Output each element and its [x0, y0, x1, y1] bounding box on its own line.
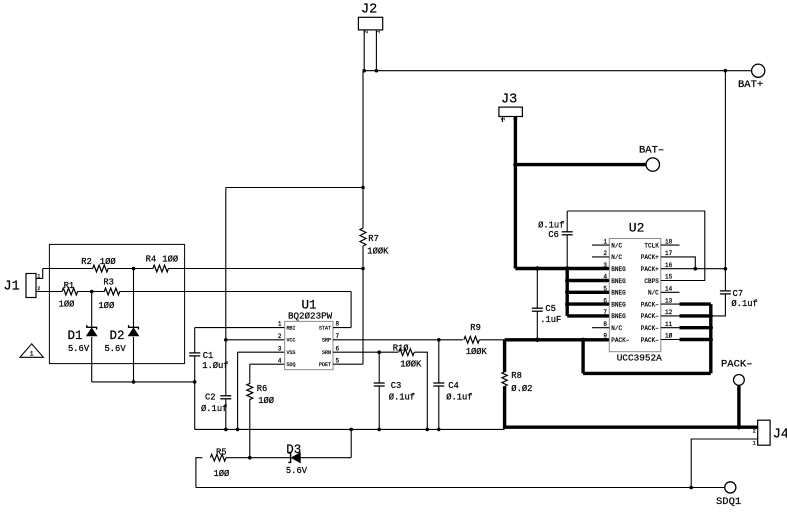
- svg-text:1ØØ: 1ØØ: [214, 469, 231, 479]
- resistor R9: [464, 336, 480, 343]
- pin 11 of U2 stub: [661, 327, 680, 329]
- svg-text:Ø.Ø2: Ø.Ø2: [511, 384, 532, 394]
- wire BAT+ right drop: [724, 71, 726, 291]
- resistor R10: [399, 349, 415, 356]
- resistor R1: [62, 288, 78, 295]
- pin 15 of U2 stub: [661, 280, 680, 282]
- wire U2 pin16 PACK+ net: [680, 268, 726, 270]
- wire PACK- bottom rail (thick): [505, 426, 758, 429]
- svg-text:PACK–: PACK–: [641, 313, 659, 320]
- junction C4 at rail: [437, 428, 441, 432]
- wire VSS pin3 net: [238, 351, 285, 353]
- svg-text:PACK–: PACK–: [641, 325, 659, 332]
- wire J1 pin1 jog: [36, 269, 43, 279]
- wire C6 top segment: [566, 211, 568, 232]
- wire PDET pin5 stub: [333, 363, 363, 365]
- wire C2 column vertical: [225, 188, 227, 396]
- junction C3 tap on SRN: [377, 350, 381, 354]
- svg-text:1: 1: [603, 238, 607, 245]
- pin 3 of U2 stub: [592, 268, 609, 270]
- junction C5 top tap: [535, 266, 539, 270]
- junction D3 riser at rail: [349, 428, 353, 432]
- junction PACK- bus pin11: [709, 326, 713, 330]
- svg-text:PACK–: PACK–: [611, 337, 629, 344]
- wire C5 column upper: [536, 269, 538, 309]
- svg-text:5: 5: [336, 357, 340, 364]
- resistor R8: [502, 372, 507, 386]
- svg-text:STAT: STAT: [319, 326, 331, 332]
- svg-text:VSS: VSS: [287, 350, 296, 356]
- svg-text:BAT+: BAT+: [738, 79, 763, 91]
- wire BNEG pin5 (thick): [567, 291, 609, 294]
- junction C5 bottom tap: [535, 338, 539, 342]
- svg-text:BNEG: BNEG: [611, 290, 626, 297]
- junction pin17 at pin16 net: [694, 267, 698, 271]
- pin 7 of U2 stub: [592, 315, 609, 317]
- wire C3 drop: [378, 352, 380, 383]
- svg-text:CBPS: CBPS: [644, 278, 659, 285]
- wire D3 riser to rail: [350, 429, 352, 457]
- svg-text:1ØØ: 1ØØ: [59, 299, 76, 309]
- wire D2 cathode drop: [133, 337, 135, 382]
- junction BNEG pin5: [565, 290, 569, 294]
- wire PACK- terminal drop (thick): [737, 385, 740, 427]
- svg-text:TCLK: TCLK: [644, 242, 659, 249]
- svg-text:U2: U2: [629, 221, 645, 236]
- wire BNEG thick row pin3 (thick): [515, 267, 609, 270]
- junction J3 drop and BAT- wire: [513, 162, 517, 166]
- svg-text:.1uF: .1uF: [540, 315, 561, 325]
- svg-text:R8: R8: [511, 371, 522, 381]
- svg-text:RBI: RBI: [287, 326, 296, 332]
- svg-text:8: 8: [336, 321, 340, 328]
- pin 10 of U2 stub: [661, 339, 680, 341]
- svg-text:R1Ø: R1Ø: [393, 343, 410, 353]
- enclosure box around input network: [49, 244, 184, 363]
- capacitor C6: [562, 231, 573, 233]
- svg-text:SDQ1: SDQ1: [716, 496, 741, 508]
- svg-text:PDET: PDET: [319, 362, 331, 368]
- capacitor C5: [532, 307, 543, 309]
- junction VSS at rail: [236, 428, 240, 432]
- svg-text:2: 2: [603, 250, 607, 257]
- junction at J2 pin2 and rail: [362, 69, 366, 73]
- svg-text:1: 1: [30, 350, 34, 357]
- wire R6 bottom lead crossing rail: [249, 399, 251, 458]
- wire PACK- pin10 (thick): [680, 338, 711, 341]
- wire SRP thick bus to U2 pin9 (thick): [505, 338, 610, 341]
- terminal BAT-: [646, 158, 659, 171]
- svg-text:BNEG: BNEG: [611, 278, 626, 285]
- svg-text:Ø.1uf: Ø.1uf: [538, 220, 564, 230]
- wire D2 anode drop: [133, 269, 135, 328]
- terminal PACK-: [734, 375, 745, 386]
- svg-text:R9: R9: [470, 323, 481, 333]
- pin 13 of U2 stub: [661, 303, 680, 305]
- op-amp U1 BQ2023PW body: [285, 321, 333, 369]
- svg-text:R6: R6: [257, 384, 268, 394]
- pin 16 of U2 stub: [661, 268, 680, 270]
- svg-text:2: 2: [364, 30, 370, 33]
- junction C2 at ground rail: [224, 428, 228, 432]
- wire C5 column lower: [536, 311, 538, 340]
- wire J1 pin2 / R1-R3 net row: [36, 291, 62, 293]
- junction C3 at rail: [377, 428, 381, 432]
- wire C1 bottom drop: [194, 356, 196, 430]
- svg-text:PACK+: PACK+: [641, 254, 659, 261]
- wire PACK- pin12 (thick): [680, 314, 711, 317]
- svg-text:5.6V: 5.6V: [105, 344, 127, 354]
- junction PACK- terminal drop at rail: [737, 425, 741, 429]
- junction BNEG pin6: [565, 302, 569, 306]
- svg-text:1ØØ: 1ØØ: [98, 301, 115, 311]
- pin 4 of U2 stub: [592, 280, 609, 282]
- zener diode D2: [129, 325, 139, 329]
- resistor R6: [247, 383, 253, 399]
- junction BNEG pin4: [565, 278, 569, 282]
- wire R10 right lead and drop: [414, 352, 427, 429]
- svg-text:5.6V: 5.6V: [68, 344, 90, 354]
- svg-text:J1: J1: [4, 280, 20, 295]
- wire D3 to riser: [300, 457, 351, 459]
- svg-text:Ø.1uf: Ø.1uf: [446, 393, 472, 403]
- svg-text:D3: D3: [286, 443, 301, 457]
- svg-text:1: 1: [376, 30, 382, 33]
- junction J4 pin1 drop at SDQ row: [689, 486, 693, 490]
- svg-text:1ØØK: 1ØØK: [367, 247, 389, 257]
- svg-text:1ØØ: 1ØØ: [162, 255, 179, 265]
- svg-text:SRN: SRN: [322, 350, 331, 356]
- svg-text:15: 15: [665, 274, 673, 281]
- terminal BAT+: [752, 64, 765, 77]
- svg-text:Ø.1uf: Ø.1uf: [731, 299, 757, 309]
- wire BNEG pin6 (thick): [567, 302, 609, 305]
- connector J3: [499, 107, 523, 116]
- svg-text:3: 3: [603, 262, 607, 269]
- wire SRP pin7 net: [333, 339, 463, 341]
- svg-text:D2: D2: [110, 329, 125, 343]
- svg-text:1: 1: [278, 321, 282, 328]
- svg-text:1ØØ: 1ØØ: [100, 257, 117, 267]
- wire J3 pin2 to BNEG bus (thick): [514, 117, 517, 269]
- pin 8 of U2 stub: [592, 327, 609, 329]
- resistor R5: [210, 454, 225, 461]
- wire J2 pin2 drop: [363, 30, 365, 71]
- wire RBI pin1 net: [195, 327, 285, 329]
- svg-text:J4: J4: [773, 428, 787, 443]
- svg-text:R3: R3: [103, 278, 114, 288]
- wire R2/R4 net (node row y=268.5): [43, 268, 93, 270]
- svg-text:2: 2: [753, 429, 756, 435]
- svg-text:6: 6: [336, 345, 340, 352]
- svg-text:VCC: VCC: [287, 338, 296, 344]
- zener diode D3: [288, 453, 290, 462]
- junction VCC tap: [224, 338, 228, 342]
- svg-text:C7: C7: [733, 289, 744, 299]
- junction R2-R4-D2 node: [132, 267, 136, 271]
- svg-text:BAT–: BAT–: [639, 145, 664, 157]
- wire CBPS loop top: [567, 211, 705, 281]
- svg-text:7: 7: [336, 333, 340, 340]
- wire R8 top lead (thick): [503, 340, 506, 372]
- svg-text:16: 16: [665, 262, 673, 269]
- junction branch y=187.5: [361, 186, 365, 190]
- junction R4 net at R7 bottom: [361, 267, 365, 271]
- junction BAT+ drop at pin16 net: [724, 267, 728, 271]
- junction R6 bottom at R5/D3 row: [248, 456, 252, 460]
- wire R8 bottom lead (thick): [503, 386, 506, 429]
- wire C2 bottom: [225, 399, 227, 430]
- wire C6 bottom segment: [566, 235, 568, 269]
- svg-text:N/C: N/C: [611, 242, 622, 249]
- svg-text:Ø.1uf: Ø.1uf: [201, 404, 227, 414]
- ground rail thin portion: [195, 428, 505, 430]
- svg-text:13: 13: [665, 297, 673, 304]
- capacitor C2: [220, 395, 231, 397]
- svg-text:1ØØK: 1ØØK: [400, 359, 422, 369]
- wire J2 drop to PDET upper segment: [362, 71, 364, 228]
- note triangle 1: [20, 344, 43, 358]
- wire BAT+ top rail: [364, 70, 751, 72]
- wire VCC pin2 net: [226, 339, 285, 341]
- terminal SDQ1: [725, 482, 736, 493]
- svg-text:N/C: N/C: [648, 290, 659, 297]
- wire R5 to D3 row: [226, 457, 290, 459]
- svg-text:C4: C4: [448, 381, 459, 391]
- junction PACK- bus pin10: [709, 337, 713, 341]
- wire PACK- pin13 (thick): [680, 302, 711, 305]
- svg-text:9: 9: [603, 333, 607, 340]
- wire C4 bottom: [438, 386, 440, 429]
- svg-text:14: 14: [665, 286, 673, 293]
- svg-text:N/C: N/C: [611, 325, 622, 332]
- pin 1 of U2 stub: [592, 244, 609, 246]
- pin stub J3 pin1: [502, 117, 504, 123]
- pin 5 of U2 stub: [592, 291, 609, 293]
- wire C7 bottom jog: [711, 294, 726, 316]
- svg-text:PACK–: PACK–: [641, 301, 659, 308]
- junction R10 drop at rail: [426, 428, 430, 432]
- svg-text:2: 2: [37, 286, 40, 292]
- wire D1 cathode drop: [91, 337, 93, 382]
- svg-text:R4: R4: [146, 255, 157, 265]
- svg-text:1ØØ: 1ØØ: [258, 396, 275, 406]
- wire thick riser to PACK- pins (thick): [709, 304, 712, 373]
- capacitor C7: [720, 290, 731, 292]
- wire upper-left branch horizontal y=187.5: [226, 187, 363, 189]
- wire thick drop x=583 (thick): [581, 340, 584, 374]
- wire PACK- pin11 (thick): [680, 326, 711, 329]
- wire R5 left lead and corner: [196, 458, 203, 488]
- pin 12 of U2 stub: [661, 315, 680, 317]
- svg-text:C3: C3: [391, 381, 402, 391]
- svg-text:R2: R2: [81, 257, 92, 267]
- svg-text:17: 17: [665, 250, 673, 257]
- pin 14 of U2 stub: [661, 291, 680, 293]
- svg-text:PACK+: PACK+: [641, 266, 659, 273]
- svg-text:Ø.1uf: Ø.1uf: [389, 393, 415, 403]
- wire BNEG bus vertical (thick): [566, 269, 569, 316]
- svg-text:J3: J3: [501, 93, 517, 108]
- svg-text:BQ2Ø23PW: BQ2Ø23PW: [288, 310, 333, 321]
- svg-text:1ØØK: 1ØØK: [466, 347, 488, 357]
- wire VSS drop to rail: [237, 352, 239, 429]
- wire R7 bottom to PDET: [362, 246, 364, 364]
- svg-text:1.Øuf: 1.Øuf: [202, 361, 228, 371]
- junction C4 tap on SRP net: [437, 338, 441, 342]
- svg-text:1: 1: [501, 117, 507, 120]
- svg-text:SDQ: SDQ: [287, 362, 296, 368]
- svg-text:R1: R1: [64, 281, 75, 291]
- wire BNEG pin4 (thick): [567, 279, 609, 282]
- svg-text:PACK–: PACK–: [641, 337, 659, 344]
- svg-text:6: 6: [603, 297, 607, 304]
- junction BAT+ rail and right drop: [724, 69, 728, 73]
- svg-text:C6: C6: [548, 230, 559, 240]
- svg-text:R7: R7: [368, 234, 379, 244]
- svg-text:12: 12: [665, 309, 673, 316]
- svg-text:BNEG: BNEG: [611, 313, 626, 320]
- svg-text:5: 5: [603, 286, 607, 293]
- svg-text:8: 8: [603, 321, 607, 328]
- wire C1 top drop: [194, 328, 196, 353]
- junction R1-R3-D1 node: [90, 290, 94, 294]
- capacitor C3: [374, 382, 385, 384]
- wire J2 pin1 drop: [375, 30, 377, 71]
- wire SRN pin6 net: [333, 351, 398, 353]
- svg-text:C5: C5: [545, 304, 556, 314]
- wire STAT riser: [350, 292, 352, 328]
- svg-text:C2: C2: [205, 392, 216, 402]
- pin 2 of U2 stub: [592, 256, 609, 258]
- capacitor C1: [189, 352, 200, 354]
- svg-text:1Ø: 1Ø: [665, 333, 673, 340]
- svg-text:R5: R5: [216, 447, 227, 457]
- svg-text:BNEG: BNEG: [611, 301, 626, 308]
- pin 6 of U2 stub: [592, 303, 609, 305]
- wire thick bottom loop under U2 (thick): [583, 372, 711, 375]
- junction PACK- bus pin12 / C7: [709, 314, 713, 318]
- wire J4 pin1 net: [691, 439, 758, 488]
- resistor R7: [360, 228, 366, 246]
- wire C3 bottom: [378, 386, 380, 429]
- svg-text:SRP: SRP: [322, 338, 331, 344]
- resistor R3: [104, 288, 120, 295]
- wire R6 top lead: [249, 364, 251, 384]
- wire SDQ row: [196, 487, 725, 489]
- resistor R2: [93, 265, 109, 272]
- wire STAT pin8 stub: [333, 327, 351, 329]
- svg-text:7: 7: [603, 309, 607, 316]
- svg-text:D1: D1: [68, 329, 83, 343]
- junction C6 bottom / BNEG bus riser: [565, 266, 569, 270]
- svg-text:1: 1: [753, 441, 756, 447]
- wire D1 anode drop: [91, 292, 93, 328]
- capacitor C4: [433, 382, 444, 384]
- pin 18 of U2 stub: [661, 244, 680, 246]
- svg-text:4: 4: [603, 274, 607, 281]
- svg-text:18: 18: [665, 238, 673, 245]
- wire D1/D2 common bottom: [92, 381, 195, 383]
- svg-text:PACK–: PACK–: [721, 359, 753, 371]
- pin 9 of U2 stub: [592, 339, 609, 341]
- svg-text:5.6V: 5.6V: [286, 466, 308, 476]
- svg-text:11: 11: [665, 321, 673, 328]
- svg-text:UCC3952A: UCC3952A: [617, 352, 662, 363]
- junction at J2 pin1 and rail: [375, 69, 379, 73]
- wire C4 drop: [438, 340, 440, 383]
- svg-text:C1: C1: [203, 351, 214, 361]
- svg-text:BNEG: BNEG: [611, 266, 626, 273]
- connector J2: [358, 17, 382, 30]
- wire U2 pin17 PACK+ jog: [680, 257, 696, 269]
- wire SDQ pin4 net: [250, 363, 285, 365]
- junction C1 at D1/D2 bottom wire: [193, 380, 197, 384]
- svg-text:2: 2: [278, 333, 282, 340]
- svg-text:N/C: N/C: [611, 254, 622, 261]
- resistor R4: [153, 265, 168, 272]
- pin 17 of U2 stub: [661, 256, 680, 258]
- zener diode D1: [87, 325, 97, 329]
- connector J4: [758, 420, 770, 445]
- junction D2 bottom: [132, 380, 136, 384]
- connector J1: [26, 274, 36, 298]
- svg-text:3: 3: [278, 345, 282, 352]
- svg-text:4: 4: [278, 357, 282, 364]
- op-amp U2 UCC3952A body: [609, 239, 661, 352]
- wire BNEG pin7 (thick): [567, 314, 609, 317]
- svg-text:J2: J2: [361, 3, 377, 18]
- junction thick drop at x=583: [581, 338, 585, 342]
- wire R9 to R8 node: [479, 339, 504, 341]
- wire BAT- (thick): [515, 163, 646, 166]
